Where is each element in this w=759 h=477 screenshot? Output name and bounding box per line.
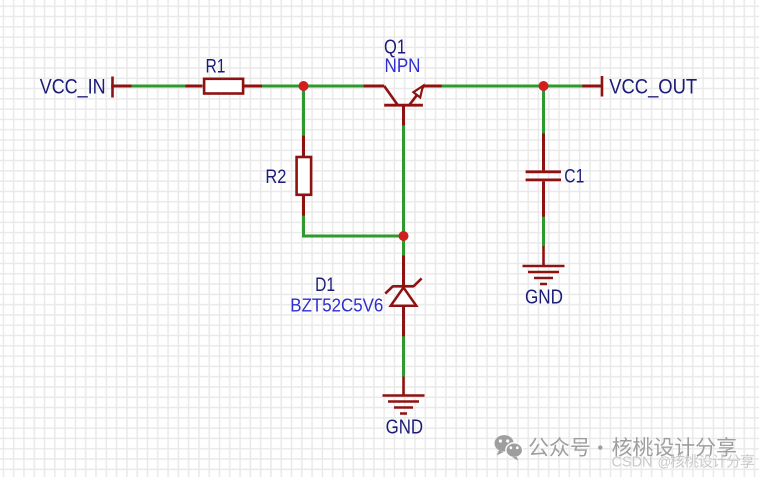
wire node C down to C1: [542, 86, 545, 134]
wire VCC_IN to R1: [132, 85, 187, 88]
port VCC_OUT: [582, 76, 602, 97]
wire node A to Q1 collector: [303, 85, 364, 88]
node A junction: [299, 81, 309, 91]
svg-text:C1: C1: [564, 166, 584, 187]
wire node A down to R2: [302, 86, 305, 136]
svg-text:@: @: [658, 455, 672, 470]
svg-text:VCC_IN: VCC_IN: [40, 76, 106, 99]
svg-text:GND: GND: [386, 416, 424, 438]
zener diode D1: [385, 256, 421, 338]
svg-text:R2: R2: [265, 167, 286, 188]
watermark wechat icon: [495, 435, 523, 461]
wire Q1 emitter to node C: [442, 85, 544, 88]
wire R1 to node A: [262, 85, 304, 88]
svg-text:R1: R1: [206, 56, 226, 77]
transistor Q1: [364, 86, 443, 126]
resistor R1: [186, 79, 264, 94]
wire C1 to ground: [542, 217, 545, 247]
svg-text:VCC_OUT: VCC_OUT: [609, 76, 697, 99]
node C junction: [539, 81, 549, 91]
wire D1 anode to ground: [402, 336, 405, 377]
capacitor C1: [526, 133, 561, 217]
watermark text line 2: [612, 454, 755, 471]
resistor R2: [297, 136, 312, 217]
node B junction: [399, 231, 409, 241]
svg-text:BZT52C5V6: BZT52C5V6: [290, 296, 383, 316]
ground (D1 branch): [383, 377, 425, 414]
wire R2 bottom to node B: [304, 216, 405, 236]
port VCC_IN: [111, 77, 132, 98]
watermark text line 1: [529, 437, 736, 457]
svg-text:D1: D1: [315, 275, 335, 296]
svg-text:GND: GND: [525, 287, 563, 309]
svg-text:CSDN: CSDN: [612, 454, 653, 471]
svg-text:NPN: NPN: [385, 55, 421, 77]
wire Q1 base down to node B: [402, 125, 405, 236]
wire node B to D1 cathode: [402, 236, 405, 257]
ground (C1 branch): [523, 246, 565, 284]
wire node C to VCC_OUT port: [543, 85, 583, 88]
